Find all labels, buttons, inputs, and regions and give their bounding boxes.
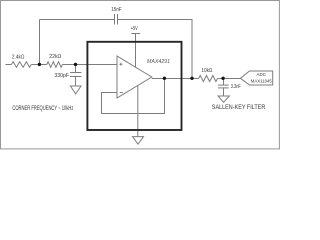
node feedback-output junction dot [163, 77, 166, 80]
capacitor C1 330pF bottom plate [70, 76, 81, 78]
capacitor C3 3.3nF top plate [218, 84, 229, 86]
wire R1 to node A [31, 64, 39, 66]
capacitor C3 3.3nF bottom plate [218, 87, 229, 89]
resistor R2 22k zigzag [47, 62, 63, 68]
op-amp plus sign [119, 63, 123, 93]
+5V terminal bar [131, 33, 140, 35]
node C junction dot [221, 77, 224, 80]
svg-text:CORNER FREQUENCY ~ 10kHz: CORNER FREQUENCY ~ 10kHz [12, 106, 73, 112]
capacitor C2 15nF right plate [117, 14, 119, 25]
svg-text:22kΩ: 22kΩ [49, 54, 61, 60]
capacitor C1 330pF top plate [70, 72, 81, 74]
wire op-amp ground pin [137, 85, 139, 136]
svg-text:10kΩ: 10kΩ [201, 68, 212, 74]
wire +5V down into op-amp [135, 34, 137, 68]
ground G1 [70, 86, 81, 94]
wire node B into amp non-inverting input [76, 64, 118, 66]
wire feedback rail left [40, 19, 115, 21]
wire R3 to node C [218, 78, 224, 80]
wire C3 to ground [223, 88, 225, 96]
svg-text:SALLEN-KEY FILTER: SALLEN-KEY FILTER [212, 105, 266, 111]
wire R2 to node B [62, 64, 75, 66]
wire C1 to ground [75, 77, 77, 87]
svg-text:ADC: ADC [257, 72, 267, 78]
capacitor C2 15nF left plate [114, 14, 116, 25]
svg-text:2.4kΩ: 2.4kΩ [12, 54, 25, 60]
wire input lead [6, 64, 12, 66]
wire node A up to feedback rail [39, 20, 41, 65]
svg-text:3.3nF: 3.3nF [231, 84, 241, 90]
node 15nF-output junction dot [190, 77, 193, 80]
ADC block MAX11045 pentagon [240, 71, 272, 85]
enclosure box [87, 42, 181, 130]
op-amp minus sign [120, 92, 123, 94]
wire node C to ADC [224, 78, 241, 80]
svg-text:+5V: +5V [131, 26, 138, 32]
wire inverting feedback loop [102, 79, 165, 114]
svg-text:15nF: 15nF [111, 7, 122, 13]
svg-text:MAX11045: MAX11045 [251, 78, 272, 84]
resistor R1 2.4k zigzag [11, 62, 31, 68]
svg-text:MAX4291: MAX4291 [147, 59, 170, 65]
resistor R3 10k zigzag [199, 76, 218, 82]
ground G2 [133, 137, 144, 145]
node A junction dot [38, 63, 41, 66]
op-amp U1 triangle [117, 56, 152, 98]
wire op-amp output [152, 78, 199, 80]
svg-text:330pF: 330pF [54, 73, 69, 79]
ground G3 [218, 96, 229, 102]
wire node C down to C3 [223, 79, 225, 86]
wire node B down to C1 [75, 65, 77, 73]
wire feedback rail right and down to output [118, 20, 193, 79]
border frame [1, 1, 280, 149]
wire node A to R2 [40, 64, 47, 66]
node B junction dot [74, 63, 77, 66]
